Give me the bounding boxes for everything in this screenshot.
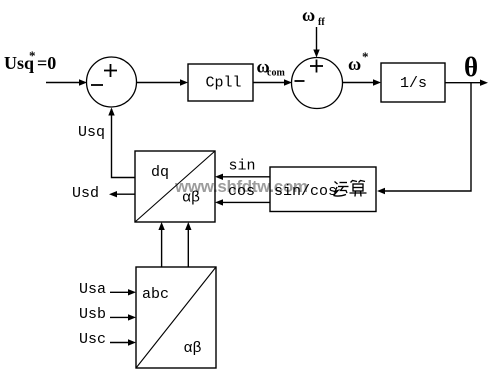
svg-text:*: * <box>29 48 36 63</box>
svg-text:Usd: Usd <box>72 185 99 202</box>
block dq/alphabeta <box>135 151 215 222</box>
wire Usc input <box>110 339 136 345</box>
svg-text:ff: ff <box>318 17 325 28</box>
wire output theta <box>445 80 488 86</box>
svg-text:ω: ω <box>348 54 361 74</box>
block Cpll <box>188 64 253 101</box>
wire omega_ff into S2 <box>313 27 319 58</box>
CJK char yun <box>334 182 349 197</box>
CJK char suan <box>350 181 367 197</box>
svg-text:1/s: 1/s <box>400 75 427 92</box>
svg-text:αβ: αβ <box>184 340 202 357</box>
svg-text:abc: abc <box>142 286 169 303</box>
summing junction S2 <box>292 58 343 109</box>
svg-text:Usq: Usq <box>78 124 105 141</box>
svg-text:dq: dq <box>151 164 169 181</box>
wire S1 to Cpll <box>137 79 189 85</box>
wire Usa input <box>110 289 136 295</box>
block 1/s <box>381 63 445 102</box>
block sin/cos yunsuan <box>270 167 376 212</box>
svg-text:sin: sin <box>229 158 256 175</box>
wire Usq feedback from dq block to S1 <box>108 108 135 178</box>
wire input to summing junction S1 <box>46 79 87 85</box>
svg-text:sin/cos: sin/cos <box>274 183 337 200</box>
summing junction S1 <box>87 57 137 107</box>
svg-text:cos: cos <box>228 183 255 200</box>
svg-text:Usb: Usb <box>79 306 106 323</box>
svg-text:Usa: Usa <box>79 281 106 298</box>
node omega_ff label <box>302 5 325 28</box>
svg-text:=0: =0 <box>37 53 56 73</box>
svg-text:Usc: Usc <box>79 331 106 348</box>
svg-text:αβ: αβ <box>182 190 200 207</box>
wire feedback theta to sin/cos block <box>377 83 471 195</box>
svg-text:com: com <box>267 68 285 79</box>
block abc/alphabeta <box>136 267 216 368</box>
node omega-star label <box>348 49 369 74</box>
node Usq*=0 label <box>4 48 56 73</box>
svg-text:θ: θ <box>464 52 478 82</box>
wire Usd output <box>109 191 135 197</box>
wire Usb input <box>110 314 136 320</box>
wire Cpll to S2 <box>253 79 292 85</box>
svg-text:ω: ω <box>302 5 315 25</box>
wire S2 to 1/s <box>343 79 381 85</box>
wire cos into dq block <box>215 199 270 205</box>
wire abc to dq left <box>158 222 164 267</box>
svg-text:Cpll: Cpll <box>206 75 242 92</box>
svg-text:*: * <box>362 49 369 64</box>
wire sin into dq block <box>215 174 270 180</box>
wire abc to dq right <box>185 222 191 267</box>
node omega_com label <box>257 57 286 79</box>
